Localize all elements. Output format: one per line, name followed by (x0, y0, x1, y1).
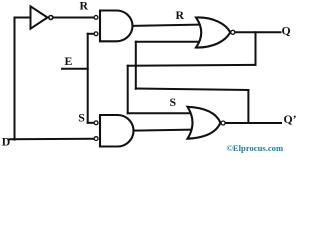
wire S into NOR2 input 1 (128, 112, 192, 114)
gate NOR2 (bottom) (188, 107, 226, 139)
wire G2 output to NOR2 input 2 (134, 129, 193, 132)
svg-text:©Elprocus.com: ©Elprocus.com (227, 143, 284, 153)
wire Q feedback horizontal (128, 64, 256, 67)
wire Q feedback vertical (255, 32, 257, 65)
G2 input bubble 1 (94, 121, 98, 125)
wire D horizontal (10, 138, 94, 141)
wire S stub to G2 upper input (88, 122, 94, 124)
wire Q output (235, 31, 280, 33)
gate G2 (AND shape, bottom) (94, 115, 133, 147)
NOR1 output bubble (231, 30, 235, 34)
gate G1 (AND shape, top) (94, 11, 132, 42)
svg-text:R: R (176, 8, 185, 22)
svg-text:Q: Q (282, 23, 291, 37)
wire E horizontal (62, 68, 88, 70)
NOR2 output bubble (221, 121, 225, 125)
gate NOR1 (top) (196, 17, 235, 47)
wire inverter input (15, 17, 31, 19)
wire Q' output (226, 122, 282, 124)
inverter U1 (31, 6, 53, 28)
wire Q feedback vertical 2 (127, 66, 129, 114)
wire E stub to G1 lower input (88, 33, 94, 35)
svg-text:R: R (80, 0, 89, 13)
wire D vertical left (14, 18, 16, 140)
wire E vertical (87, 34, 89, 123)
G1 input bubble 1 (94, 16, 98, 20)
svg-text:D: D (2, 135, 11, 149)
wire Q' feedback vertical a (135, 42, 137, 89)
wire inverter output to gate G1 (54, 17, 93, 19)
svg-text:S: S (170, 95, 177, 109)
wire NOR1 input 2 (136, 41, 200, 43)
wire Q' feedback vertical b (247, 90, 249, 123)
wire G1 output to NOR1 input 1 (133, 25, 199, 26)
svg-text:S: S (78, 111, 85, 125)
svg-text:E: E (65, 54, 73, 68)
G2 input bubble 2 (94, 137, 98, 141)
G1 input bubble 2 (94, 32, 98, 36)
svg-text:Q’: Q’ (284, 112, 297, 126)
wire Q' feedback horizontal (136, 89, 249, 91)
